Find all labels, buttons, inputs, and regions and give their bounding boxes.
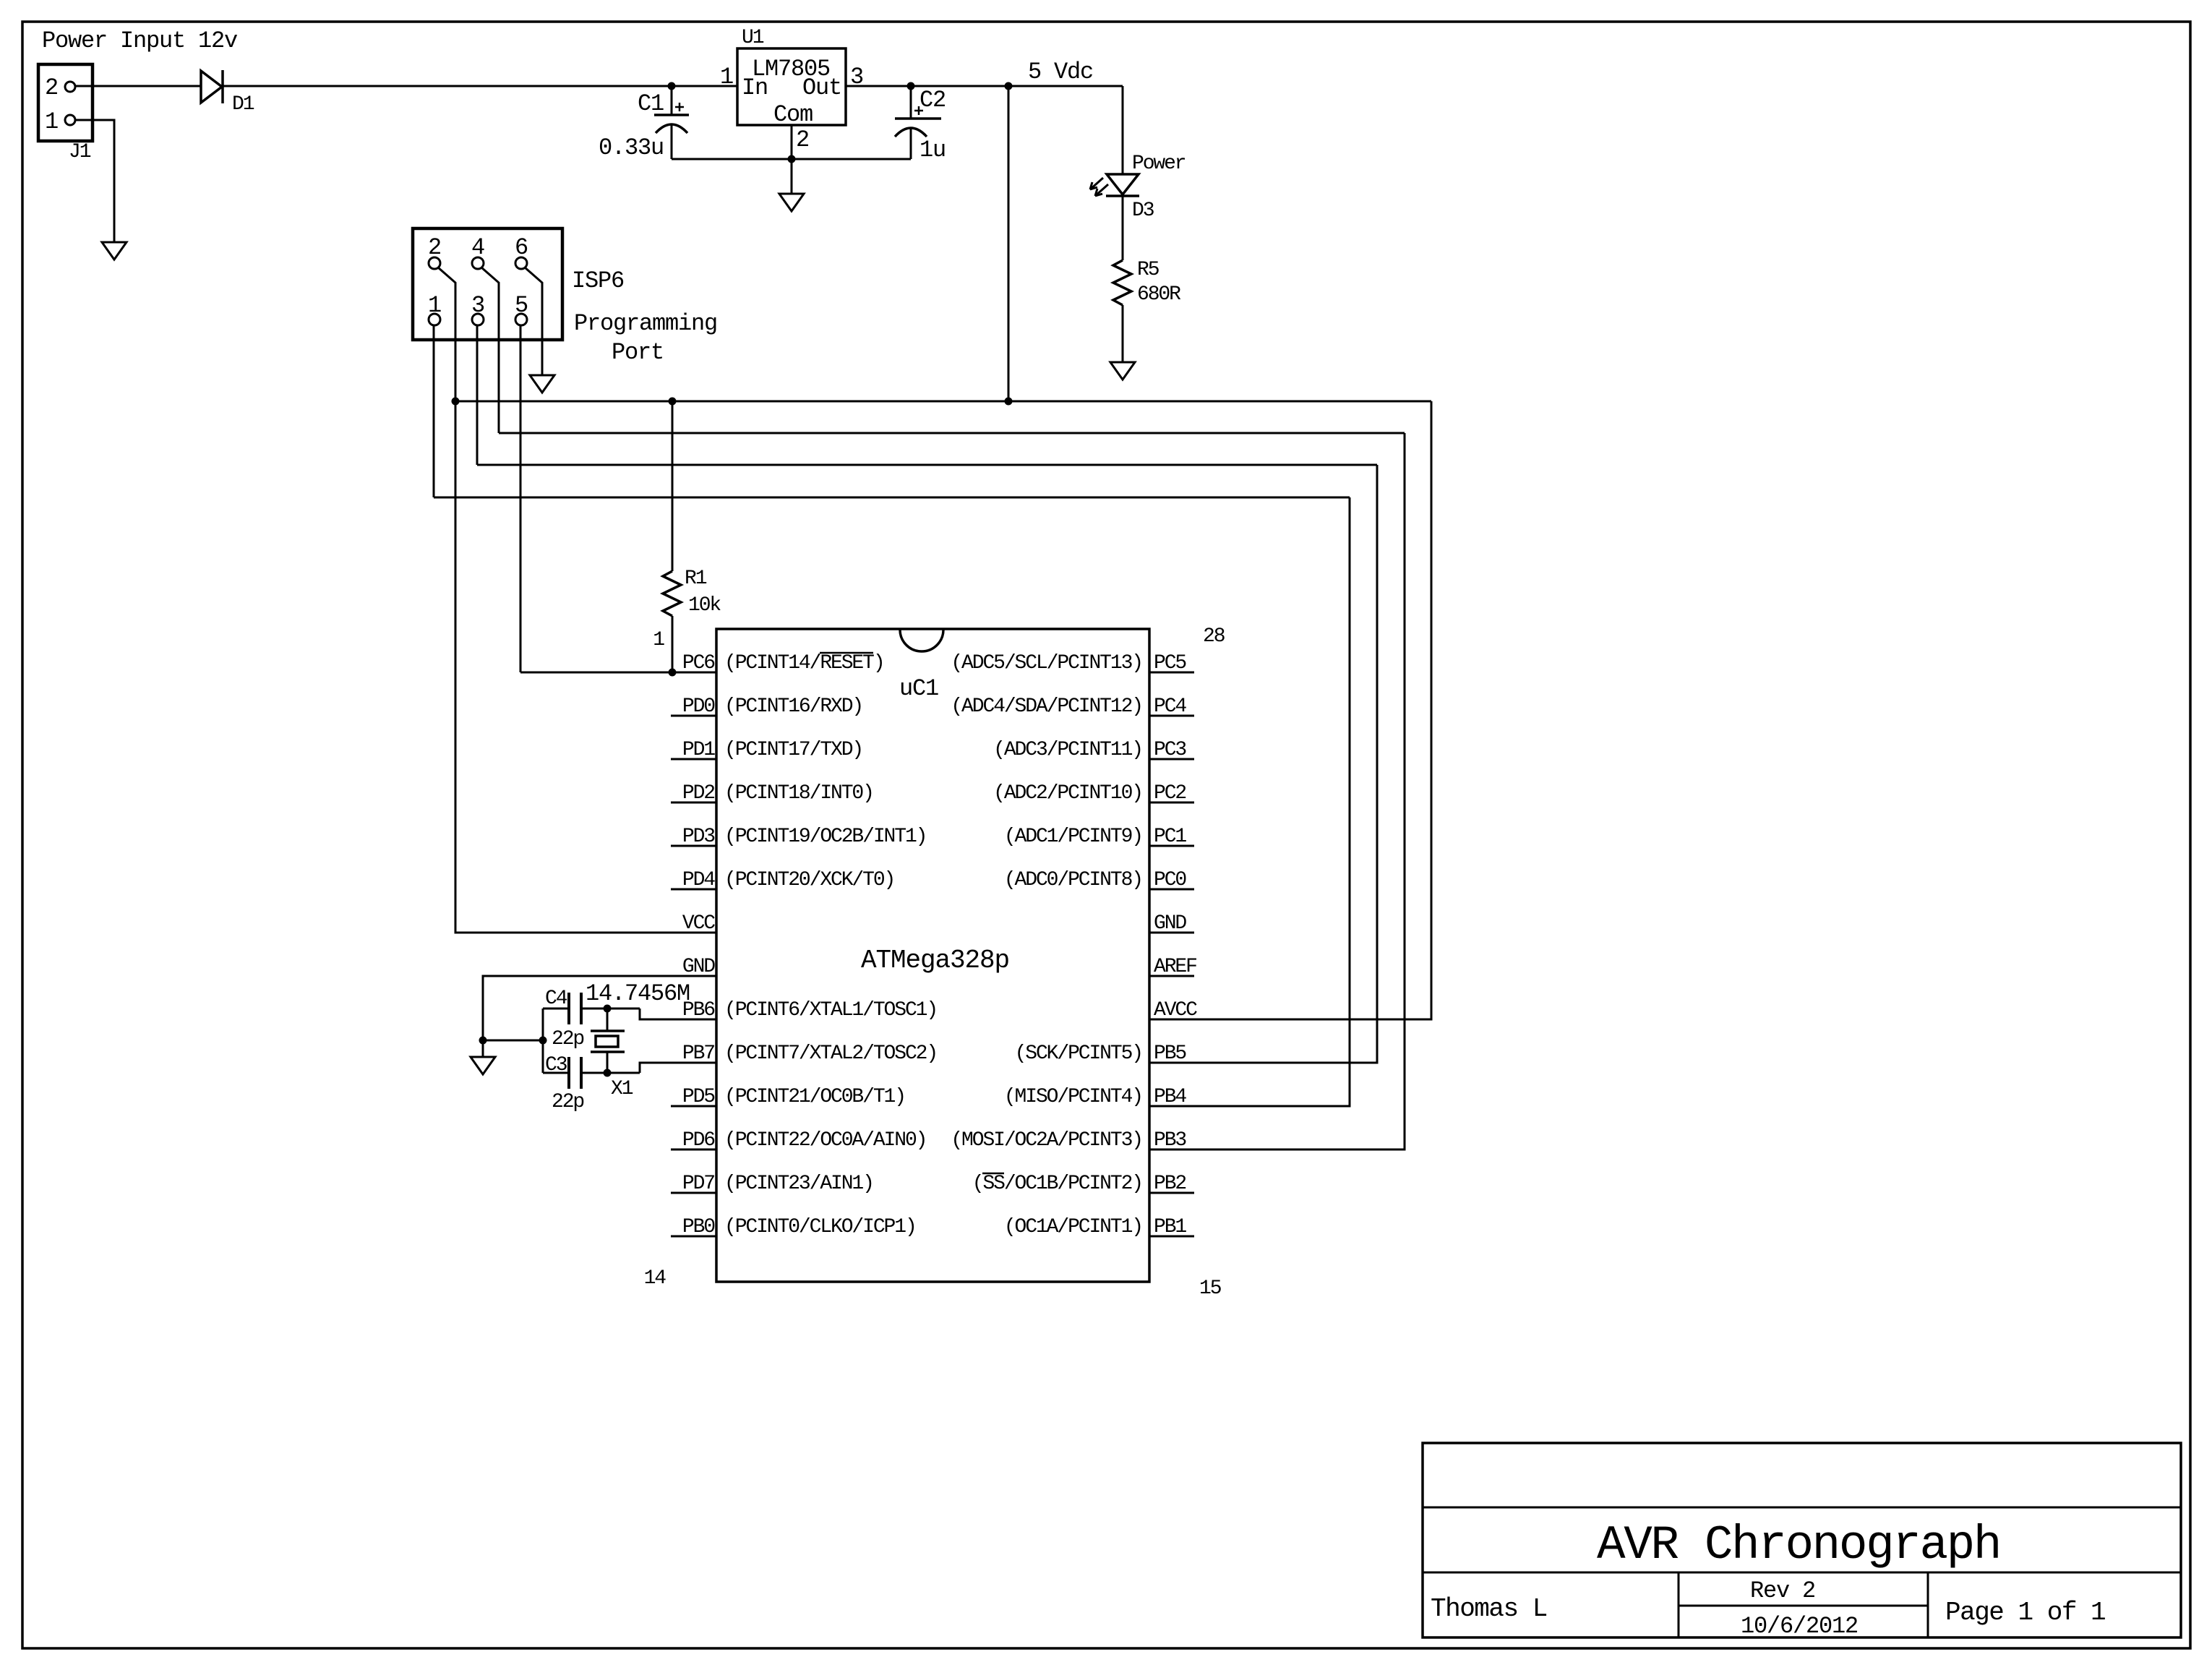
pin PD4 <box>671 888 716 891</box>
wire MISO bus <box>434 497 1350 499</box>
wire 5Vdc down to VCC bus <box>1008 86 1010 401</box>
pin PC5 <box>1149 672 1194 674</box>
svg-text:PB1: PB1 <box>1154 1216 1186 1238</box>
svg-text:C2: C2 <box>919 87 946 114</box>
svg-text:PC2: PC2 <box>1154 782 1186 805</box>
svg-text:AREF: AREF <box>1154 956 1196 978</box>
svg-text:(SCK/PCINT5): (SCK/PCINT5) <box>1015 1042 1142 1065</box>
svg-text:C3: C3 <box>545 1054 567 1076</box>
svg-text:680R: 680R <box>1137 283 1181 306</box>
regulator U1 box <box>737 48 846 125</box>
svg-text:PD0: PD0 <box>682 695 715 718</box>
node VCC/R1 <box>669 398 677 406</box>
resistor R1 <box>672 401 674 571</box>
svg-text:Rev 2: Rev 2 <box>1750 1577 1815 1604</box>
svg-text:(PCINT16/RXD): (PCINT16/RXD) <box>724 695 862 718</box>
wire ISP pin6 to ground <box>525 267 542 375</box>
svg-text:PB2: PB2 <box>1154 1173 1186 1195</box>
svg-text:(PCINT23/AIN1): (PCINT23/AIN1) <box>724 1173 873 1195</box>
pin GND <box>1149 932 1194 934</box>
pin PD5 <box>671 1105 716 1108</box>
SS overline <box>982 1173 1004 1175</box>
title block <box>1423 1443 2181 1637</box>
svg-text:1: 1 <box>720 64 733 90</box>
svg-text:ATMega328p: ATMega328p <box>861 946 1009 975</box>
pin PD2 <box>671 802 716 804</box>
wire ISP pin2 (VCC) <box>438 267 716 933</box>
svg-text:(PCINT14/RESET): (PCINT14/RESET) <box>724 652 884 675</box>
svg-text:(PCINT22/OC0A/AIN0): (PCINT22/OC0A/AIN0) <box>724 1129 926 1152</box>
RESET overline <box>820 652 873 654</box>
node: rail junction at C1 <box>668 82 676 90</box>
diode D1 <box>201 71 222 103</box>
svg-text:(SS/OC1B/PCINT2): (SS/OC1B/PCINT2) <box>972 1173 1142 1195</box>
U1 Com lead <box>791 125 793 159</box>
node XTAL1 <box>604 1005 612 1013</box>
ground (ISP6 pin 6) <box>530 375 554 393</box>
wire R5 to ground <box>1122 305 1124 362</box>
svg-text:22p: 22p <box>552 1028 583 1050</box>
svg-text:PD7: PD7 <box>682 1173 714 1195</box>
svg-text:D1: D1 <box>232 93 254 116</box>
svg-text:PB0: PB0 <box>682 1216 715 1238</box>
wire ISP pin4 (MOSI) <box>481 267 499 433</box>
svg-text:10/6/2012: 10/6/2012 <box>1741 1613 1858 1640</box>
svg-text:0.33u: 0.33u <box>599 134 664 161</box>
MCU notch <box>900 630 943 651</box>
wire AVCC drop <box>1149 401 1431 1019</box>
svg-text:Thomas L: Thomas L <box>1431 1594 1547 1624</box>
wire RESET to PC6 <box>520 672 716 674</box>
svg-text:14: 14 <box>644 1267 666 1290</box>
resistor R5 <box>1113 260 1131 305</box>
svg-text:14.7456M: 14.7456M <box>586 980 690 1007</box>
svg-text:Port: Port <box>612 339 664 366</box>
wire to PB6 <box>640 1009 716 1019</box>
svg-text:Power Input 12v: Power Input 12v <box>42 27 238 54</box>
svg-text:Out: Out <box>802 74 841 101</box>
LED arrows <box>1090 178 1103 189</box>
svg-text:X1: X1 <box>611 1078 633 1100</box>
svg-text:15: 15 <box>1199 1277 1222 1300</box>
svg-text:(MISO/PCINT4): (MISO/PCINT4) <box>1004 1086 1142 1108</box>
pin PD3 <box>671 845 716 847</box>
svg-text:Page 1 of 1: Page 1 of 1 <box>1945 1598 2105 1627</box>
svg-text:In: In <box>742 74 768 101</box>
svg-text:(MOSI/OC2A/PCINT3): (MOSI/OC2A/PCINT3) <box>951 1129 1142 1152</box>
node: C2 junction <box>907 82 915 90</box>
svg-text:(PCINT19/OC2B/INT1): (PCINT19/OC2B/INT1) <box>724 826 926 848</box>
wire VCC bus <box>455 401 1431 403</box>
svg-text:PD3: PD3 <box>682 826 715 848</box>
svg-text:22p: 22p <box>552 1091 583 1113</box>
pin PB1 <box>1149 1236 1194 1238</box>
wire MISO drop to PB4 <box>1149 497 1350 1106</box>
svg-text:GND: GND <box>682 956 715 978</box>
MCU uC1 box <box>716 629 1149 1282</box>
svg-text:2: 2 <box>796 127 809 153</box>
svg-text:(ADC3/PCINT11): (ADC3/PCINT11) <box>993 739 1142 761</box>
wire ISP pin1 (MISO) <box>433 325 435 497</box>
pin PC1 <box>1149 845 1194 847</box>
wire MOSI bus <box>499 432 1405 434</box>
svg-text:(PCINT6/XTAL1/TOSC1): (PCINT6/XTAL1/TOSC1) <box>724 999 937 1022</box>
wire rail to LED D3 <box>1122 86 1124 174</box>
svg-text:PC5: PC5 <box>1154 652 1186 675</box>
pin PD6 <box>671 1149 716 1151</box>
capacitor C3 <box>543 1072 569 1074</box>
wire to PB7 <box>640 1063 716 1073</box>
svg-text:Programming: Programming <box>574 310 717 337</box>
wire ISP pin3 (SCK) <box>476 325 479 465</box>
pin PC3 <box>1149 758 1194 761</box>
wire LED to R5 <box>1122 196 1124 260</box>
svg-text:C1: C1 <box>638 90 664 117</box>
svg-text:(PCINT7/XTAL2/TOSC2): (PCINT7/XTAL2/TOSC2) <box>724 1042 937 1065</box>
svg-text:J1: J1 <box>69 141 91 163</box>
svg-text:1u: 1u <box>919 137 946 163</box>
svg-text:(OC1A/PCINT1): (OC1A/PCINT1) <box>1004 1216 1142 1238</box>
svg-text:PC1: PC1 <box>1154 826 1186 848</box>
connector J1 <box>38 64 93 141</box>
node VCC/5Vdc <box>1005 398 1013 406</box>
wire U1 Out to 5Vdc rail <box>846 85 1123 87</box>
connector ISP6 box <box>413 228 562 340</box>
svg-text:Power: Power <box>1132 153 1186 175</box>
svg-text:PD5: PD5 <box>682 1086 715 1108</box>
svg-text:uC1: uC1 <box>899 675 938 702</box>
svg-text:GND: GND <box>1154 912 1186 935</box>
pin AREF <box>1149 975 1194 977</box>
svg-text:(PCINT17/TXD): (PCINT17/TXD) <box>724 739 862 761</box>
svg-text:10k: 10k <box>688 594 721 617</box>
wire D1 cathode to U1 In <box>223 85 737 87</box>
svg-text:AVR Chronograph: AVR Chronograph <box>1597 1518 2000 1572</box>
svg-text:(PCINT18/INT0): (PCINT18/INT0) <box>724 782 873 805</box>
wire J1 pin1 to ground <box>76 120 114 242</box>
pin PB2 <box>1149 1192 1194 1194</box>
ground (J1) <box>102 242 127 260</box>
pin PC2 <box>1149 802 1194 804</box>
pin PB0 <box>671 1236 716 1238</box>
node gnd tee <box>479 1037 487 1045</box>
svg-text:PB5: PB5 <box>1154 1042 1186 1065</box>
wire MOSI drop to PB3 <box>1149 433 1405 1149</box>
svg-text:AVCC: AVCC <box>1154 999 1197 1022</box>
svg-text:R1: R1 <box>685 568 707 590</box>
node cap rail <box>539 1037 547 1045</box>
ground (crystal) <box>471 1057 495 1074</box>
node: Com junction <box>788 155 796 163</box>
svg-text:PC0: PC0 <box>1154 869 1186 891</box>
svg-text:(ADC4/SDA/PCINT12): (ADC4/SDA/PCINT12) <box>951 695 1142 718</box>
pin PD1 <box>671 758 716 761</box>
wire ISP pin5 (RESET) <box>520 325 522 672</box>
svg-text:PB4: PB4 <box>1154 1086 1186 1108</box>
cap rail vertical <box>542 1009 544 1073</box>
pin PD0 <box>671 715 716 717</box>
ground (R5) <box>1110 362 1135 380</box>
wire J1 pin2 to D1 anode <box>76 85 201 87</box>
svg-text:PD2: PD2 <box>682 782 714 805</box>
svg-text:ISP6: ISP6 <box>572 267 624 294</box>
svg-text:U1: U1 <box>742 27 764 49</box>
capacitor C2 <box>910 86 912 119</box>
capacitor C4 <box>543 1008 569 1010</box>
svg-text:(ADC1/PCINT9): (ADC1/PCINT9) <box>1004 826 1142 848</box>
svg-text:PC6: PC6 <box>682 652 714 675</box>
svg-text:1: 1 <box>653 629 664 651</box>
svg-text:PB3: PB3 <box>1154 1129 1186 1152</box>
svg-text:D3: D3 <box>1132 200 1154 222</box>
svg-text:(PCINT20/XCK/T0): (PCINT20/XCK/T0) <box>724 869 894 891</box>
crystal X1 <box>606 1009 609 1031</box>
capacitor C1 <box>671 86 673 115</box>
node VCC/ISP2 <box>452 398 460 406</box>
ground (U1 Com) <box>791 159 793 194</box>
svg-text:R5: R5 <box>1137 259 1159 281</box>
wire SCK drop to PB5 <box>1149 465 1377 1063</box>
svg-text:C4: C4 <box>545 988 567 1010</box>
wire GND pin to crystal ground <box>483 976 716 1057</box>
LED D3 <box>1107 174 1139 194</box>
svg-text:PD1: PD1 <box>682 739 715 761</box>
svg-text:28: 28 <box>1203 625 1225 648</box>
svg-text:(ADC5/SCL/PCINT13): (ADC5/SCL/PCINT13) <box>951 652 1142 675</box>
svg-text:5 Vdc: 5 Vdc <box>1028 59 1093 85</box>
wire SCK bus <box>477 464 1377 466</box>
node: 5Vdc branch <box>1005 82 1013 90</box>
wire: ground bus C1-Com-C2 <box>672 158 911 160</box>
svg-text:PC4: PC4 <box>1154 695 1186 718</box>
svg-text:VCC: VCC <box>682 912 715 935</box>
svg-text:1: 1 <box>45 108 58 135</box>
wire gnd tee to cap rail <box>483 1040 543 1042</box>
node XTAL2 <box>604 1069 612 1077</box>
svg-text:2: 2 <box>45 74 58 101</box>
pin PC0 <box>1149 888 1194 891</box>
svg-text:(PCINT21/OC0B/T1): (PCINT21/OC0B/T1) <box>724 1086 905 1108</box>
node R1/PC6 <box>669 669 677 677</box>
svg-text:PD4: PD4 <box>682 869 715 891</box>
svg-text:(PCINT0/CLKO/ICP1): (PCINT0/CLKO/ICP1) <box>724 1216 916 1238</box>
svg-text:Com: Com <box>773 101 813 128</box>
pin PD7 <box>671 1192 716 1194</box>
svg-text:(ADC2/PCINT10): (ADC2/PCINT10) <box>993 782 1142 805</box>
svg-text:(ADC0/PCINT8): (ADC0/PCINT8) <box>1004 869 1142 891</box>
svg-text:PB7: PB7 <box>682 1042 714 1065</box>
svg-text:PC3: PC3 <box>1154 739 1186 761</box>
svg-text:PD6: PD6 <box>682 1129 714 1152</box>
pin PC4 <box>1149 715 1194 717</box>
